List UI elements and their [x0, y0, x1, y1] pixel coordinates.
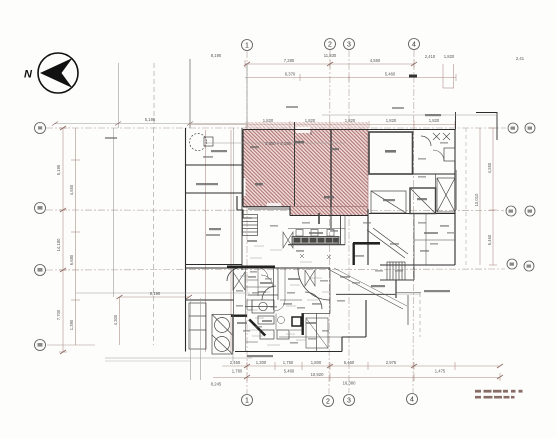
south wall segments — [186, 267, 331, 269]
caption text line 1 — [475, 390, 523, 399]
svg-text:2: 2 — [328, 42, 332, 49]
svg-text:6,680: 6,680 — [69, 254, 74, 265]
svg-text:1,390: 1,390 — [69, 319, 74, 330]
svg-text:N: N — [24, 69, 33, 81]
thick kitchen wall — [231, 315, 247, 317]
stepped wall left of hatch bottom — [237, 196, 252, 218]
svg-text:4,550: 4,550 — [370, 58, 381, 63]
bubble col 2 top — [325, 39, 336, 50]
eaves line around lower right — [396, 292, 421, 294]
top dim row 1 — [245, 63, 414, 65]
svg-text:1,475: 1,475 — [435, 369, 446, 374]
bottom dim row 1 — [222, 365, 500, 367]
x-marks top right — [433, 133, 450, 140]
diagonal flow lines — [367, 230, 405, 258]
wall y=264.5 — [186, 264, 243, 266]
north arrow head — [40, 58, 73, 88]
small dark rect fixture — [292, 317, 301, 326]
wall under stairs — [380, 279, 414, 281]
dim line above plan (y=124.5) — [190, 124, 456, 126]
svg-text:4,300: 4,300 — [113, 314, 118, 325]
svg-text:2,41: 2,41 — [516, 56, 525, 61]
wall inside hatch x=331 — [330, 130, 332, 207]
bubble row E left — [35, 340, 46, 351]
sink squares above counter — [296, 230, 303, 237]
thick diagonal wall — [248, 319, 266, 337]
svg-text:1,800: 1,800 — [311, 360, 322, 365]
thick wall south face — [227, 266, 275, 269]
grid line row C (y=210) — [46, 209, 504, 212]
svg-text:2,450: 2,450 — [230, 360, 241, 365]
lower right wing walls — [367, 209, 369, 265]
svg-text:1,750: 1,750 — [283, 360, 294, 365]
long site diagonal — [328, 269, 403, 309]
bubble row C right pair — [506, 206, 516, 216]
bubble row B left — [35, 123, 46, 134]
right dim chain x=480 — [479, 128, 481, 265]
svg-text:1,300: 1,300 — [256, 360, 267, 365]
left dim chain x=119.5 — [119, 297, 121, 345]
svg-text:10,010: 10,010 — [474, 193, 479, 206]
svg-text:1: 1 — [245, 43, 249, 50]
svg-text:4,550: 4,550 — [69, 184, 74, 195]
planter box with circles — [212, 315, 233, 355]
door arcs lower centre — [227, 268, 240, 281]
bowtie double doors — [233, 272, 245, 290]
grid col 2 (x=330) — [329, 50, 330, 394]
wall y=193 — [186, 192, 243, 194]
left wall of terrace/building — [185, 128, 187, 352]
svg-text:7,280: 7,280 — [284, 58, 295, 63]
svg-text:11,830: 11,830 — [324, 53, 337, 58]
svg-text:2,050 × 2,195: 2,050 × 2,195 — [265, 141, 291, 146]
svg-text:1,820: 1,820 — [345, 118, 356, 123]
bubble col 4 bottom — [407, 394, 418, 405]
interior partitions lower area — [233, 268, 235, 352]
north arrow circle — [38, 53, 78, 93]
svg-text:4,550: 4,550 — [487, 162, 492, 173]
dim tick square top right — [409, 75, 417, 78]
svg-text:4: 4 — [410, 397, 414, 404]
top wall of main building — [243, 129, 455, 131]
lower-left faint verticals — [205, 130, 207, 352]
terrace round table (dashed) — [190, 134, 207, 151]
closet room 2 with diagonal — [410, 188, 436, 214]
svg-text:5,195: 5,195 — [145, 117, 156, 122]
thick vert stub — [318, 213, 320, 224]
kitchen lower wall — [288, 244, 345, 246]
hatched canopy area — [239, 122, 368, 216]
kitchen counter band — [292, 237, 339, 245]
svg-text:10,920: 10,920 — [311, 372, 324, 377]
bubble col 3 top — [344, 39, 355, 50]
right wing interior — [413, 214, 415, 266]
svg-text:1,780: 1,780 — [232, 368, 243, 373]
thick wall bar mid-right — [353, 242, 380, 245]
svg-text:8,245: 8,245 — [211, 382, 222, 387]
svg-text:5,460: 5,460 — [344, 360, 355, 365]
grid line row B (horizontal dash-dot y=128) — [46, 127, 506, 129]
svg-text:1: 1 — [245, 398, 249, 405]
thick vertical — [353, 243, 355, 265]
white door openings in hatch — [296, 127, 310, 133]
small rooms right wing mid — [414, 239, 455, 241]
svg-text:2,410: 2,410 — [425, 54, 436, 59]
svg-text:6,190: 6,190 — [150, 291, 161, 296]
bubble row D left — [35, 265, 46, 276]
svg-text:5,195: 5,195 — [56, 164, 61, 175]
staircase lower right — [387, 262, 405, 280]
wall inside hatch x=294.5 — [294, 122, 296, 207]
bubble col 1 top — [242, 40, 253, 51]
svg-text:1,820: 1,820 — [429, 118, 440, 123]
closet X-box right — [437, 178, 455, 212]
svg-text:1,820: 1,820 — [386, 118, 397, 123]
left dim chain x=63 — [62, 128, 64, 352]
dimension slanted tick marks — [60, 62, 503, 379]
x-marks in dining — [300, 254, 304, 258]
grid line row E stub (y=345) — [47, 344, 95, 346]
wall x=331 extension down — [330, 207, 332, 229]
corridor lines upper hatch area — [310, 132, 312, 136]
thick vertical near bath — [302, 313, 304, 335]
extra interior clutter lower-centre — [257, 268, 259, 296]
grid line row D (y=270) — [46, 269, 505, 270]
bubble row C left — [35, 203, 46, 214]
svg-text:2: 2 — [326, 399, 330, 406]
mid-left dim line y=297 — [120, 296, 190, 298]
svg-text:1,820: 1,820 — [305, 118, 316, 123]
right wall of main building — [454, 130, 456, 266]
long horizontal site line y=293 left — [76, 292, 250, 294]
svg-text:6,370: 6,370 — [285, 72, 296, 77]
top gray line y=115 — [322, 114, 497, 116]
bottom dim row 2 — [213, 377, 500, 379]
thick wall bars — [227, 242, 380, 336]
bubble col 3 bottom — [344, 395, 355, 406]
svg-text:7,700: 7,700 — [56, 309, 61, 320]
top-left dim y=123.5 — [54, 123, 245, 125]
site boundary bottom — [105, 357, 252, 359]
staircase upper (terrace side) — [243, 215, 258, 236]
extra faint interior texture — [240, 246, 330, 345]
svg-text:16,380: 16,380 — [343, 381, 356, 386]
svg-text:5,460: 5,460 — [487, 234, 492, 245]
svg-text:3: 3 — [347, 42, 351, 49]
bubble col 1 bottom — [242, 395, 253, 406]
long horizontal site line y=294 right — [336, 293, 420, 295]
svg-text:5,460: 5,460 — [385, 72, 396, 77]
svg-text:1,820: 1,820 — [263, 118, 274, 123]
right wing room (storage) — [369, 132, 413, 174]
svg-text:2,975: 2,975 — [386, 360, 397, 365]
svg-text:8,190: 8,190 — [211, 53, 222, 58]
svg-text:4: 4 — [412, 42, 416, 49]
rotated left dim labels — [56, 162, 492, 330]
closet room 1 with diagonal — [371, 191, 406, 213]
left verticals below — [113, 128, 115, 297]
kitchen counter — [189, 303, 206, 349]
dim right of top: short verticals — [442, 64, 444, 88]
hatch bottom wall (double) — [243, 206, 290, 208]
svg-text:5,460: 5,460 — [284, 368, 295, 373]
terrace right wall x=242 — [241, 128, 243, 270]
washroom fixtures — [252, 300, 274, 313]
rotated right-side text smudge — [455, 170, 457, 210]
wall y=165 — [186, 164, 243, 166]
door arc top right — [421, 136, 431, 146]
svg-text:3: 3 — [347, 398, 351, 405]
right guide verticals — [419, 293, 421, 337]
small horizontal dim y=143 — [205, 142, 345, 144]
svg-text:14,180: 14,180 — [56, 238, 61, 251]
svg-text:1,820: 1,820 — [444, 54, 455, 59]
canopy notch top-right — [476, 113, 497, 141]
bubble row D right pair — [507, 259, 517, 269]
bubble col 2 bottom — [323, 396, 334, 407]
hatch left wall — [242, 130, 244, 207]
grid col 3 (x=349) — [348, 50, 350, 393]
top left verticals — [118, 63, 120, 128]
right dim chain x=493 — [492, 128, 494, 265]
bath area detail — [306, 318, 328, 348]
misc vertical right of plan — [465, 128, 467, 265]
left dim chain x=75.5 — [75, 128, 77, 345]
top dim row 2 — [245, 77, 456, 79]
lower building outline — [235, 351, 342, 353]
grid col 4 (x=414) — [413, 50, 414, 393]
bubble col 4 top — [409, 39, 420, 50]
bubble row B right pair — [508, 123, 518, 133]
grid col 1 (x=247) — [246, 51, 248, 394]
